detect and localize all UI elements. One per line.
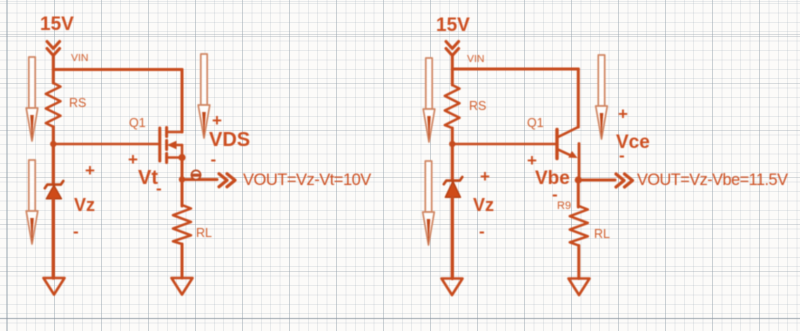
- probe marker P6 (Vce): [596, 55, 608, 139]
- svg-text:-: -: [73, 222, 79, 241]
- port symbol (circle minus): [191, 170, 200, 179]
- svg-text:+: +: [618, 105, 628, 124]
- mosfet Q1 source stub: [167, 156, 182, 159]
- wire zener to ground: [52, 199, 55, 278]
- svg-text:VIN: VIN: [467, 53, 485, 65]
- wire output horizontal: [182, 178, 217, 181]
- wire base node to zener right: [451, 144, 454, 181]
- svg-text:RL: RL: [594, 227, 610, 241]
- junction dot base node: [449, 141, 455, 147]
- probe marker P3 (VDS): [198, 54, 210, 138]
- svg-text:VIN: VIN: [71, 52, 89, 64]
- wire drain vertical: [181, 70, 184, 133]
- mosfet Q1 body stub with arrow: [172, 144, 182, 147]
- svg-text:-: -: [156, 179, 162, 198]
- svg-text:VOUT=Vz-Vbe=11.5V: VOUT=Vz-Vbe=11.5V: [637, 171, 788, 189]
- wire VIN horizontal right: [452, 68, 578, 71]
- junction dot output node right: [575, 176, 582, 183]
- svg-text:15V: 15V: [40, 14, 74, 35]
- power supply symbol 15V right: [446, 42, 459, 56]
- probe marker P2 (left of zener): [26, 160, 38, 244]
- wire collector vertical: [577, 69, 580, 127]
- svg-text:VOUT=Vz-Vt=10V: VOUT=Vz-Vt=10V: [243, 171, 371, 189]
- bjt Q1 collector lead: [557, 127, 578, 138]
- mosfet Q1 drain stub: [167, 131, 182, 134]
- output arrow chevrons right: [616, 174, 633, 187]
- svg-text:-: -: [479, 222, 485, 241]
- wire RS to gate node: [52, 127, 55, 145]
- output arrow chevrons: [219, 174, 235, 187]
- wire source to output node: [181, 158, 184, 180]
- wire RS to base node: [451, 128, 454, 146]
- junction dot gate node: [50, 141, 56, 147]
- ground G1: [44, 278, 65, 295]
- svg-text:+: +: [212, 111, 222, 130]
- wire RL to ground right: [577, 246, 580, 279]
- svg-text:-: -: [211, 150, 217, 169]
- svg-text:Vz: Vz: [74, 195, 95, 215]
- junction dot output node: [179, 176, 185, 182]
- wire RL to ground: [181, 244, 184, 278]
- probe marker P5 (left of zener right): [423, 161, 435, 245]
- resistor RS right: [445, 85, 460, 128]
- zener diode Vz right body: [445, 181, 460, 197]
- ground G4: [569, 279, 590, 296]
- wire VIN horizontal: [53, 68, 182, 71]
- probe marker P4 (left of RS right): [423, 58, 435, 142]
- svg-text:+: +: [128, 150, 138, 169]
- wire gate node to zener: [52, 144, 55, 184]
- wire emitter to output node: [578, 144, 581, 181]
- bjt Q1 emitter arrow: [568, 151, 577, 158]
- power supply symbol 15V: [47, 42, 60, 56]
- wire zener to ground right: [451, 197, 454, 278]
- svg-text:Q1: Q1: [129, 116, 146, 130]
- wire power to RS: [52, 56, 55, 84]
- wire output node to RL right: [577, 180, 580, 207]
- mosfet Q1 channel segments: [165, 128, 168, 163]
- zener diode Vz body: [46, 185, 61, 199]
- ground G2: [172, 278, 193, 295]
- resistor RS: [46, 83, 61, 127]
- svg-text:RL: RL: [196, 226, 212, 240]
- mosfet Q1 body-source tie: [181, 145, 184, 158]
- wire output node to RL: [181, 180, 184, 207]
- probe marker P1 (left of RS): [26, 57, 38, 141]
- mosfet Q1 gate bar: [158, 128, 161, 161]
- wire base horizontal: [452, 143, 556, 146]
- junction dot source tie: [178, 154, 185, 161]
- svg-text:-: -: [619, 146, 625, 165]
- svg-text:VDS: VDS: [209, 129, 250, 151]
- svg-text:Q1: Q1: [527, 116, 544, 130]
- ground G3: [442, 279, 463, 296]
- wire gate horizontal: [53, 143, 158, 146]
- bjt Q1 emitter lead: [557, 149, 572, 156]
- svg-text:Vz: Vz: [473, 195, 494, 215]
- svg-text:15V: 15V: [436, 15, 470, 36]
- resistor RL: [173, 205, 191, 244]
- resistor RL right: [570, 206, 588, 246]
- svg-text:+: +: [480, 167, 490, 186]
- svg-text:R9: R9: [557, 200, 571, 212]
- zener diode Vz cathode bar: [45, 181, 64, 188]
- svg-text:RS: RS: [69, 96, 86, 110]
- wire power to RS right: [451, 56, 454, 86]
- wire output horizontal right: [578, 179, 615, 182]
- svg-text:+: +: [85, 161, 95, 180]
- zener diode Vz right cathode bar: [444, 177, 463, 184]
- bjt Q1 base bar: [555, 130, 558, 159]
- svg-text:RS: RS: [469, 99, 486, 113]
